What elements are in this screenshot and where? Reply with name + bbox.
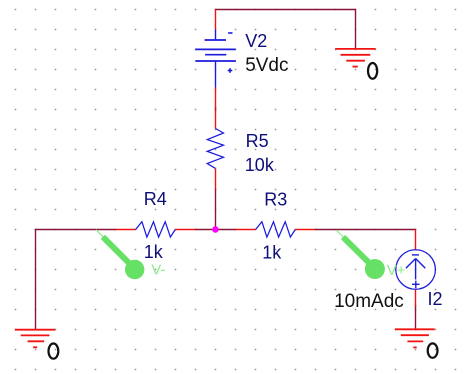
svg-text:R4: R4 bbox=[144, 189, 167, 209]
svg-text:R5: R5 bbox=[246, 131, 269, 151]
svg-text:V2: V2 bbox=[245, 31, 267, 51]
svg-text:R3: R3 bbox=[264, 190, 287, 210]
svg-text:I2: I2 bbox=[428, 289, 443, 309]
svg-text:10k: 10k bbox=[245, 155, 275, 175]
svg-text:1k: 1k bbox=[144, 242, 164, 262]
svg-text:1k: 1k bbox=[262, 242, 282, 262]
svg-text:V-: V- bbox=[151, 262, 165, 279]
svg-text:10mAdc: 10mAdc bbox=[334, 291, 404, 312]
svg-text:V+: V+ bbox=[387, 262, 406, 279]
svg-text:5Vdc: 5Vdc bbox=[245, 55, 288, 76]
